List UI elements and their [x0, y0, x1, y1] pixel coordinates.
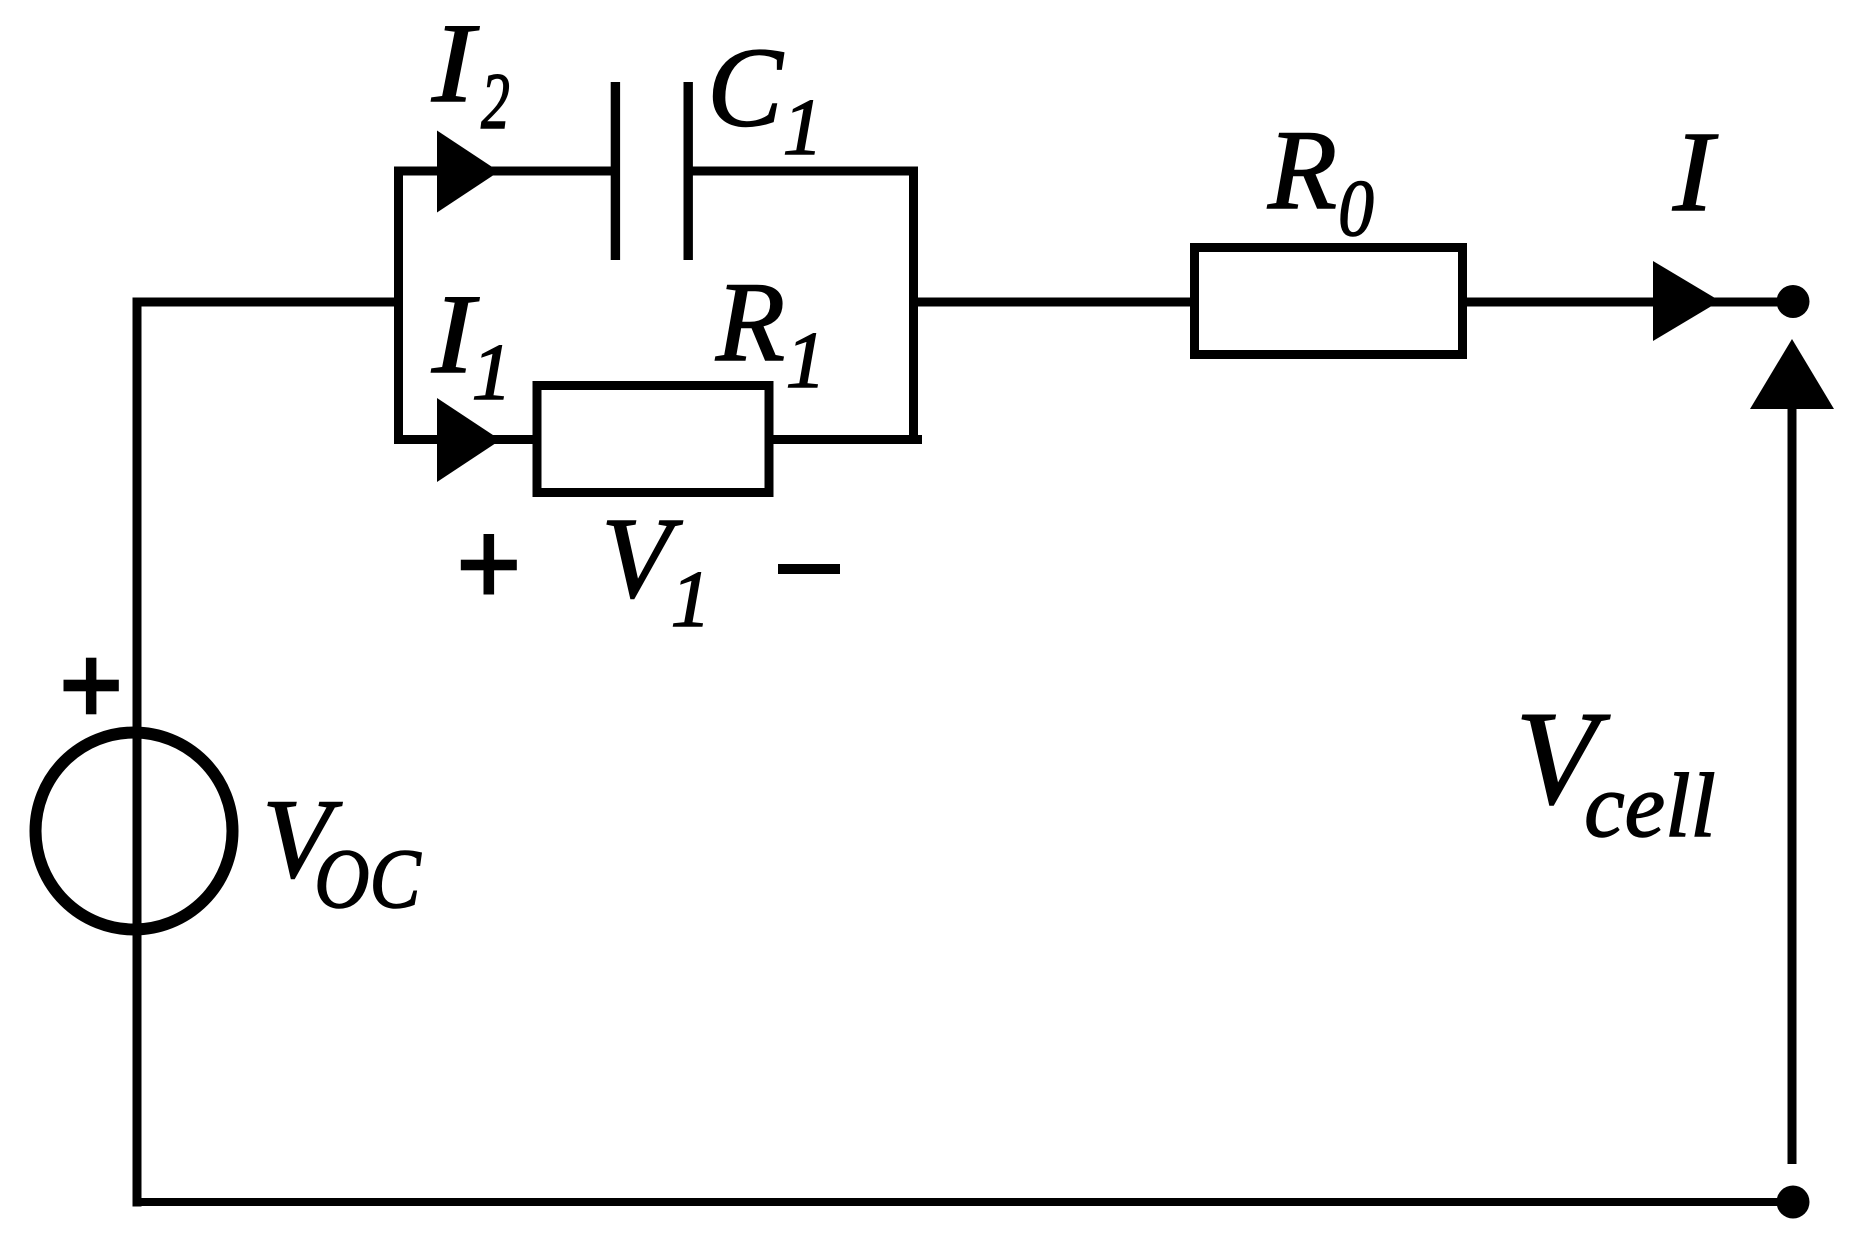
wire: capacitor branch right segment — [693, 167, 919, 176]
svg-text:I: I — [431, 0, 480, 125]
svg-text:1: 1 — [671, 556, 711, 644]
node: negative output terminal — [1777, 1186, 1810, 1219]
wire: Vcell reference vertical line — [1788, 402, 1797, 1164]
svg-text:1: 1 — [786, 317, 826, 405]
svg-text:2: 2 — [481, 58, 510, 146]
svg-text:OC: OC — [314, 832, 421, 926]
svg-text:I: I — [1672, 108, 1718, 236]
arrow I1 current direction — [437, 398, 501, 482]
svg-text:R: R — [1267, 108, 1337, 233]
svg-text:R: R — [715, 260, 785, 385]
node: positive output terminal — [1777, 285, 1810, 318]
wire: capacitor branch left segment — [394, 167, 611, 176]
capacitor C1 left plate — [611, 82, 620, 260]
node: RC block right vertical bus — [909, 167, 918, 445]
minus sign of V1 polarity — [778, 564, 840, 574]
wire: resistor branch left segment — [394, 435, 537, 444]
wire: resistor branch right segment — [769, 435, 922, 444]
arrow I2 current direction — [437, 131, 499, 213]
arrow Vcell polarity head — [1750, 339, 1834, 409]
resistor R0 body — [1195, 248, 1463, 355]
wire: left vertical through voltage source — [133, 298, 142, 1207]
wire: middle horizontal to R0 — [909, 298, 1194, 307]
wire: top-left horizontal from source branch to RC block — [133, 298, 404, 307]
svg-text:0: 0 — [1338, 165, 1374, 253]
plus sign of V1 polarity — [461, 560, 517, 571]
arrow I output current direction — [1653, 261, 1720, 341]
resistor R1 body — [537, 386, 769, 493]
plus sign of VOC source — [64, 680, 119, 692]
voltage source VOC circle — [36, 733, 233, 930]
capacitor C1 right plate — [684, 82, 693, 260]
svg-text:1: 1 — [472, 329, 512, 417]
wire: output wire from R0 to terminal — [1462, 298, 1786, 307]
svg-text:1: 1 — [783, 84, 823, 172]
node: RC block left vertical bus — [394, 167, 403, 445]
svg-text:cell: cell — [1584, 755, 1715, 856]
wire: bottom return wire — [133, 1198, 1789, 1206]
svg-text:C: C — [707, 26, 784, 151]
